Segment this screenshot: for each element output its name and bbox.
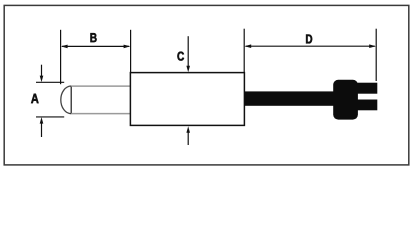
dimension A top extension line xyxy=(36,81,64,83)
dimension C arrow shaft xyxy=(187,36,189,67)
probe cylinder top line xyxy=(71,85,130,87)
dimension A top arrowhead (down) xyxy=(40,76,44,83)
border frame xyxy=(4,5,409,165)
probe tip dome arc xyxy=(61,86,71,114)
label C xyxy=(177,52,184,61)
sensor body rectangle xyxy=(130,73,244,126)
label A xyxy=(31,94,38,103)
connector top prong xyxy=(358,83,378,94)
dimension A top arrow shaft xyxy=(41,65,43,78)
dimension A bottom arrowhead (up) xyxy=(40,117,44,124)
dimension A bottom extension line xyxy=(36,116,64,118)
cable xyxy=(244,91,333,105)
probe cylinder bottom line xyxy=(71,113,130,115)
bottom arrowhead (up) xyxy=(186,126,190,133)
dimension D right arrowhead xyxy=(369,44,376,48)
dimension B right arrowhead xyxy=(124,45,131,49)
connector body xyxy=(333,80,358,120)
dimension D left extension line xyxy=(243,29,245,73)
probe tip junction line xyxy=(70,86,72,114)
dimension B left arrowhead xyxy=(61,45,68,49)
dimension B left extension line xyxy=(60,30,62,84)
dimension D left arrowhead xyxy=(245,44,252,48)
dimension D right extension line xyxy=(375,29,377,81)
dimension B right extension line xyxy=(130,30,132,73)
bottom arrow shaft (body bottom reference) xyxy=(187,131,189,145)
dimension D line xyxy=(246,45,375,47)
dimension B line xyxy=(62,45,129,47)
dimension C arrowhead (down) xyxy=(186,66,190,73)
dimension A bottom arrow shaft xyxy=(41,122,43,137)
label B xyxy=(90,33,96,42)
label D xyxy=(306,35,312,44)
connector bottom prong xyxy=(358,100,378,111)
